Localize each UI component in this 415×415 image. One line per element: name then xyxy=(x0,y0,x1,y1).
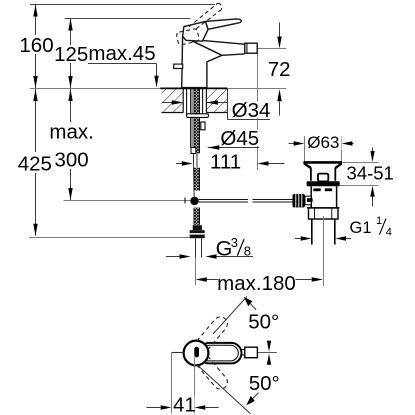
lever front mark xyxy=(194,347,199,358)
svg-text:Ø34: Ø34 xyxy=(232,99,271,122)
reference line: lever top (125 dim) xyxy=(65,18,191,20)
aerator square xyxy=(245,347,258,358)
rod end tick xyxy=(184,198,186,204)
reference line: aerator outlet level (72 dim) xyxy=(258,48,287,50)
label G 3/8 xyxy=(216,235,251,261)
lever handle body xyxy=(183,21,209,41)
label 111 xyxy=(210,151,241,174)
supply hose braided lower segment xyxy=(194,208,200,225)
reference line: pop-up rod level (max.300 dim) xyxy=(64,200,191,202)
drain cup taper right xyxy=(335,164,342,169)
dimension 41 arrows xyxy=(147,407,162,409)
label Ø45 xyxy=(220,127,260,150)
drain tailpipe xyxy=(311,219,313,245)
outer obround (spout) xyxy=(199,343,242,364)
left inlet stub xyxy=(174,64,183,68)
svg-text:3: 3 xyxy=(231,235,238,250)
dimension max.180 line with arrows xyxy=(207,279,218,281)
svg-text:Ø45: Ø45 xyxy=(220,127,259,150)
50° upper arc arrow xyxy=(244,297,252,306)
drain body bottom xyxy=(307,207,340,209)
label 72 xyxy=(268,58,292,81)
dimension 72 arrows xyxy=(279,23,281,38)
svg-text:41: 41 xyxy=(173,393,196,415)
counter cross-section hatch right xyxy=(206,88,227,113)
label max. xyxy=(48,121,95,144)
50° lower arc arrow xyxy=(246,396,254,405)
G3/8 threaded tails xyxy=(196,238,202,257)
svg-text:160: 160 xyxy=(19,34,53,57)
drain body slots xyxy=(313,188,320,191)
dimension Ø34 leader with arrows xyxy=(162,88,270,119)
svg-text:8: 8 xyxy=(244,243,251,258)
drain flange top xyxy=(303,161,342,164)
dashed raised lever blade xyxy=(189,3,222,29)
svg-text:425: 425 xyxy=(18,152,52,175)
extension lines Ø63 xyxy=(304,136,306,162)
drain lift knob xyxy=(318,174,328,182)
label 34-51 xyxy=(346,162,395,183)
rod pivot ball xyxy=(190,197,198,205)
side connector with screw xyxy=(305,196,311,205)
spout aerator xyxy=(245,43,257,53)
threaded shank edges through counter xyxy=(187,89,203,114)
50° lower ray xyxy=(199,366,251,414)
svg-text:G1: G1 xyxy=(350,219,372,237)
dimension 41 extension lines xyxy=(171,353,173,414)
label Ø63 xyxy=(306,133,342,152)
dimension G3/8 arrows xyxy=(166,256,180,258)
centerline right xyxy=(258,352,277,354)
inner obround (lever) xyxy=(201,345,238,361)
svg-text:max.180: max.180 xyxy=(217,272,296,295)
svg-text:50°: 50° xyxy=(248,310,279,333)
label max.45 xyxy=(88,42,156,65)
label 125 xyxy=(54,43,88,66)
label 50° upper xyxy=(248,310,279,333)
dimension 34-51 reference lines xyxy=(342,162,379,164)
dimension 425 vertical line with arrows xyxy=(35,89,37,236)
svg-text:50°: 50° xyxy=(249,372,280,395)
dimension Ø63 arrows xyxy=(289,143,294,145)
dimension Ø45 leader xyxy=(208,147,259,149)
50° upper ray xyxy=(213,296,247,334)
dimension max.45 leader xyxy=(88,64,157,78)
svg-text:34-51: 34-51 xyxy=(347,162,394,183)
reference line: top of raised lever (160 dim) xyxy=(30,4,215,6)
label Ø34 xyxy=(232,99,271,122)
label 300 xyxy=(54,148,88,171)
svg-text:max.45: max.45 xyxy=(88,42,155,65)
dashed lever capsule upper (+50°) xyxy=(197,317,227,350)
drain cup walls xyxy=(310,168,312,181)
counter cross-section hatch left xyxy=(162,88,184,113)
dashed lever capsule lower (-50°) xyxy=(197,356,227,389)
dimension 160 vertical line with arrows xyxy=(35,5,37,89)
drain cup taper left xyxy=(304,164,311,169)
faucet body front view xyxy=(182,36,245,87)
drain lock nut xyxy=(309,208,339,219)
G3/8 hose nut xyxy=(190,225,205,238)
hose connection line between segments xyxy=(196,153,198,168)
svg-text:Ø63: Ø63 xyxy=(307,133,339,152)
dimension G1 1/4 arrows xyxy=(295,238,301,240)
counter surface bold line xyxy=(160,87,227,89)
svg-text:72: 72 xyxy=(268,58,291,81)
extension line: faucet axis for max.180 xyxy=(195,258,197,286)
label 425 xyxy=(18,152,53,175)
dimension 111 arrows xyxy=(176,163,188,165)
50° center arrows xyxy=(267,341,271,352)
drain seal flange (black band) xyxy=(307,181,340,186)
side tab on shank xyxy=(201,122,205,130)
dimension max.300 vertical line with arrows xyxy=(70,89,72,200)
svg-text:300: 300 xyxy=(54,148,88,171)
label 50° lower xyxy=(249,372,280,395)
label G1 1/4 xyxy=(350,215,392,239)
faucet supply hose braided (through counter) xyxy=(194,88,200,153)
svg-text:max.: max. xyxy=(49,121,93,144)
pop-up rod vertical pair xyxy=(191,89,193,148)
drain body walls xyxy=(310,186,312,208)
pop-up waste drain assembly xyxy=(293,136,343,286)
rod guide fitting xyxy=(191,148,196,154)
supply hose braided middle segment xyxy=(194,168,200,191)
knurled side nut xyxy=(293,194,306,208)
label max.180 xyxy=(217,272,296,295)
top view: faucet xyxy=(172,341,277,366)
svg-text:4: 4 xyxy=(386,227,392,239)
label 160 xyxy=(19,34,53,57)
pop-up rod (horizontal) xyxy=(199,200,293,203)
mounting washer under counter xyxy=(187,114,209,118)
reference line: hose end level (425 dim) xyxy=(29,237,193,239)
dimension 34-51 arrows xyxy=(372,148,374,152)
body circle xyxy=(184,341,209,366)
drain axis line xyxy=(323,216,325,286)
label 41 xyxy=(173,393,196,415)
rod link down to ball xyxy=(192,154,195,198)
dimension 125 vertical line with arrows xyxy=(70,19,72,89)
left stub xyxy=(172,352,184,354)
svg-text:1: 1 xyxy=(376,215,382,227)
svg-text:111: 111 xyxy=(210,151,241,174)
reference line: counter surface extended xyxy=(30,88,287,90)
dashed raised-handle base xyxy=(176,28,199,45)
lever blade xyxy=(206,19,242,29)
extension line: aerator tip vertical (111 dim) xyxy=(257,54,259,171)
svg-text:125: 125 xyxy=(54,43,88,66)
